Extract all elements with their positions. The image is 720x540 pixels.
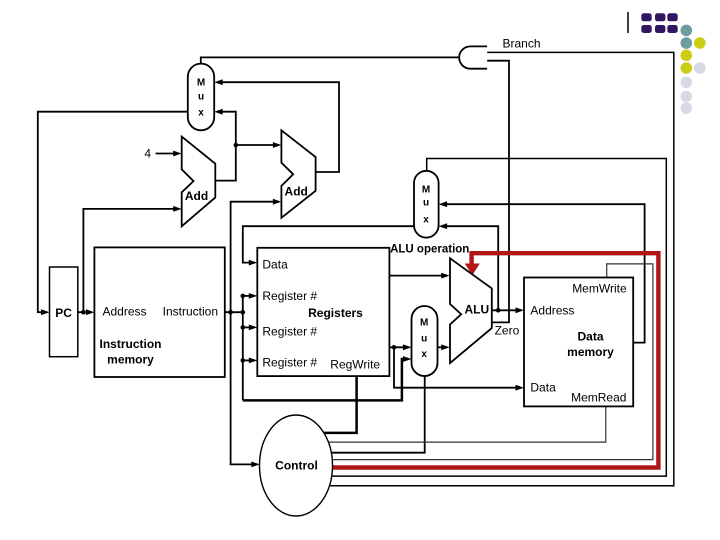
svg-text:M: M bbox=[197, 78, 205, 89]
svg-text:M: M bbox=[420, 318, 428, 329]
adder Add2 bbox=[281, 130, 315, 218]
svg-text:u: u bbox=[423, 198, 429, 209]
svg-text:Register #: Register # bbox=[262, 289, 317, 303]
svg-text:M: M bbox=[422, 185, 430, 196]
arrowhead into Add1 upper input bbox=[173, 151, 182, 157]
svg-text:memory: memory bbox=[567, 345, 614, 359]
svg-text:PC: PC bbox=[55, 306, 72, 320]
svg-text:x: x bbox=[423, 215, 429, 226]
node read data 2 junction bbox=[392, 345, 397, 350]
wire ALU result to Data memory Address bbox=[492, 309, 521, 311]
arrowhead into Register 1 bbox=[249, 293, 257, 299]
wire 4 into Add1 upper input bbox=[156, 153, 178, 155]
svg-text:RegWrite: RegWrite bbox=[330, 358, 380, 372]
register PC bbox=[50, 267, 78, 357]
wire instruction to Register 1 bbox=[243, 295, 254, 297]
arrowhead into ALU lower input bbox=[441, 344, 450, 350]
wire Mux1 output to PC bbox=[38, 112, 188, 313]
svg-text:MemWrite: MemWrite bbox=[572, 282, 627, 296]
mux M2 MemtoReg bbox=[414, 171, 439, 238]
box Instruction memory bbox=[94, 247, 224, 377]
wire instruction to Add2 lower input bbox=[231, 202, 278, 313]
svg-text:memory: memory bbox=[107, 353, 154, 367]
node PC+4 junction bbox=[234, 143, 239, 148]
logo divider line bbox=[627, 12, 629, 33]
wire ALU Zero to AND gate lower input bbox=[487, 61, 509, 323]
svg-text:Instruction: Instruction bbox=[100, 337, 162, 351]
svg-text:Instruction: Instruction bbox=[163, 305, 218, 319]
node register 2 tap bbox=[241, 325, 246, 330]
arrowhead into Add2 lower input bbox=[273, 199, 282, 205]
red ALU operation control wire bbox=[331, 253, 658, 467]
arrowhead into Register 2 bbox=[249, 325, 257, 331]
wire AND gate output to Mux1 select bbox=[201, 57, 459, 63]
node ALU result junction bbox=[496, 308, 501, 313]
svg-text:Register #: Register # bbox=[262, 356, 317, 370]
wire Branch control loop to AND gate upper input bbox=[330, 52, 674, 485]
red arrowhead into ALU bbox=[465, 264, 480, 276]
svg-text:Registers: Registers bbox=[308, 306, 363, 320]
svg-text:Add: Add bbox=[285, 185, 308, 199]
adder Add1 bbox=[182, 137, 216, 227]
svg-text:MemRead: MemRead bbox=[571, 391, 626, 405]
arrowhead into Mux2 lower right input bbox=[439, 223, 448, 229]
wire Mux2 output writeback to Registers Data bbox=[243, 226, 414, 262]
svg-text:ALU: ALU bbox=[464, 303, 489, 317]
node register 1 tap bbox=[241, 294, 246, 299]
logo purple squares bbox=[641, 13, 677, 33]
arrowhead into Add1 lower input bbox=[173, 206, 182, 212]
wire PC+4 to Add2 upper input bbox=[236, 144, 278, 146]
svg-text:Address: Address bbox=[530, 304, 574, 318]
wire Registers read data 2 to Mux3 bbox=[389, 346, 408, 348]
wire PC to Instruction memory Address bbox=[78, 311, 91, 313]
wire read data 2 to Data memory Data input bbox=[394, 347, 521, 387]
wire instruction to Control bbox=[231, 312, 256, 464]
box Registers bbox=[257, 248, 389, 376]
svg-text:Address: Address bbox=[103, 305, 147, 319]
node instruction junction bbox=[228, 310, 233, 315]
svg-text:Register #: Register # bbox=[262, 325, 317, 339]
wire Add2 output loop to Mux1 upper right input bbox=[218, 82, 339, 172]
wire Registers read data 1 to ALU bbox=[389, 275, 446, 277]
svg-text:ALU operation: ALU operation bbox=[390, 244, 469, 256]
arrowhead into ALU upper input bbox=[441, 273, 450, 279]
arrowhead into Add2 upper input bbox=[273, 142, 282, 148]
svg-text:Data: Data bbox=[577, 330, 603, 344]
svg-text:Branch: Branch bbox=[503, 37, 541, 51]
wire ALU result up to Mux2 lower right input bbox=[442, 226, 498, 310]
node PC output junction bbox=[81, 310, 86, 315]
svg-text:u: u bbox=[421, 334, 427, 345]
wire ALUSrc control to Mux3 select bbox=[331, 376, 424, 453]
oval Control bbox=[260, 415, 333, 516]
wire Add1 output loop to Mux1 lower right input bbox=[215, 112, 236, 181]
svg-text:4: 4 bbox=[144, 147, 151, 161]
svg-text:Data: Data bbox=[262, 258, 288, 272]
svg-text:x: x bbox=[198, 108, 204, 119]
arrowhead into PC bbox=[41, 309, 50, 315]
arrowhead into Register 3 bbox=[249, 358, 257, 364]
arrowhead into Mux3 lower left input bbox=[403, 356, 412, 362]
wire immediate to Mux3 lower input (thick) bbox=[243, 359, 408, 400]
logo gray circles bbox=[694, 62, 706, 74]
wire MemtoReg control loop to Mux2 select bbox=[332, 159, 667, 477]
arrowhead into Data memory Address bbox=[516, 307, 525, 313]
mux M1 PCSrc bbox=[188, 64, 214, 131]
arrowhead into Registers Data bbox=[249, 260, 257, 266]
logo yellow circles bbox=[694, 37, 706, 49]
svg-text:Zero: Zero bbox=[495, 324, 520, 338]
mux M3 ALUSrc bbox=[412, 306, 438, 376]
wire instruction to Register 3 bbox=[243, 359, 254, 361]
node register 3 tap bbox=[241, 358, 246, 363]
box Data memory bbox=[524, 278, 633, 407]
wire Mux3 output to ALU lower input bbox=[438, 346, 447, 348]
svg-text:u: u bbox=[198, 92, 204, 103]
svg-text:Control: Control bbox=[275, 459, 318, 473]
wire instruction to Register 2 bbox=[243, 326, 254, 328]
svg-text:Add: Add bbox=[185, 189, 208, 203]
logo teal circles bbox=[681, 25, 693, 37]
wire Instruction memory output bbox=[225, 311, 243, 313]
gate AND branch bbox=[459, 46, 487, 68]
svg-text:x: x bbox=[421, 349, 427, 360]
wire PC up to Add1 lower input bbox=[83, 209, 178, 312]
wire MemRead control to Data memory bottom bbox=[329, 406, 606, 442]
wire RegWrite control to Registers bottom (thick) bbox=[324, 376, 357, 433]
arrowhead into Mux1 upper right input bbox=[214, 79, 223, 85]
wire Data memory read data to Mux2 upper right input bbox=[442, 204, 644, 342]
svg-text:Data: Data bbox=[530, 381, 556, 395]
wire MemWrite control to Data memory top bbox=[332, 264, 653, 460]
arrowhead into Mux2 upper right input bbox=[439, 201, 448, 207]
ALU bbox=[450, 258, 492, 363]
node instruction junction 2 bbox=[241, 310, 246, 315]
arrowhead into Instruction memory Address bbox=[86, 309, 95, 315]
arrowhead into Control bbox=[251, 462, 259, 468]
arrowhead into Mux3 upper left input bbox=[403, 344, 412, 350]
arrowhead into Mux1 lower right input bbox=[214, 109, 223, 115]
arrowhead into Data memory Data bbox=[516, 385, 525, 391]
wire instruction register number vertical bbox=[242, 296, 244, 401]
